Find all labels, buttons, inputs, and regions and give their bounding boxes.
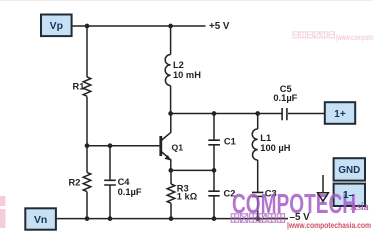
svg-text:10 mH: 10 mH — [173, 70, 201, 80]
junction dot C1-C2 node — [212, 168, 217, 173]
wire L2 column — [170, 26, 172, 114]
capacitor C5 plates — [282, 108, 287, 120]
junction dot bottom rail C3 — [255, 216, 260, 221]
wire R3 leads — [170, 170, 172, 218]
svg-text:C4: C4 — [118, 177, 131, 187]
arrow to -5V rail — [318, 175, 329, 201]
junction dot bottom rail C4 — [108, 216, 113, 221]
terminal box 1- — [334, 184, 365, 206]
svg-text:1 kΩ: 1 kΩ — [177, 192, 198, 202]
wire C5 to 1+ box — [288, 113, 325, 115]
junction dot C4 top node — [108, 143, 113, 148]
wire mid rail to C5 — [171, 113, 282, 115]
svg-text:1+: 1+ — [334, 109, 346, 120]
junction dot L2 top — [168, 24, 173, 29]
terminal box 1+ — [325, 102, 355, 124]
transistor Q1 — [161, 114, 171, 171]
wire C1 column — [213, 114, 215, 171]
wire bottom -5V rail — [56, 218, 288, 220]
svg-text:|www.compotechasia.com: |www.compotechasia.com — [287, 220, 371, 230]
junction dot emitter node — [168, 168, 173, 173]
faint watermark left edge — [0, 196, 6, 228]
svg-text:100 µH: 100 µH — [260, 143, 290, 153]
watermark CJK row — [231, 214, 284, 223]
svg-text:GND: GND — [338, 165, 360, 176]
junction dot Vp rail — [85, 24, 90, 29]
terminal box Vp — [41, 15, 72, 37]
wire left column (Vp to bottom rail) — [86, 26, 88, 219]
svg-text:Asia: Asia — [350, 201, 369, 213]
capacitor C4 plates — [104, 180, 116, 185]
faint watermark top right — [293, 32, 373, 42]
wire C2 column — [213, 170, 215, 218]
resistor R1 — [83, 77, 91, 96]
terminal box Vn — [25, 208, 56, 229]
svg-text:0.1µF: 0.1µF — [118, 187, 142, 197]
capacitor C2 plates — [208, 191, 219, 196]
junction dot collector node — [168, 111, 173, 116]
top edge artifact — [0, 0, 373, 2]
junction dot bottom rail C2 — [212, 216, 217, 221]
svg-text:1–: 1– — [343, 190, 355, 201]
inductor L1 — [252, 129, 257, 160]
wire emitter rail — [171, 169, 214, 171]
svg-text:L2: L2 — [173, 60, 184, 70]
svg-text:Q1: Q1 — [172, 142, 184, 152]
terminal box GND — [334, 158, 365, 180]
wire L1 column — [257, 114, 259, 219]
resistor R3 — [167, 184, 175, 203]
svg-text:Vp: Vp — [50, 21, 63, 32]
svg-text:Vn: Vn — [34, 215, 47, 226]
capacitor C1 plates — [208, 140, 220, 145]
resistor R2 — [83, 172, 91, 191]
svg-text:0.1µF: 0.1µF — [273, 93, 297, 103]
svg-text:R2: R2 — [69, 177, 81, 187]
inductor L2 — [165, 55, 170, 86]
svg-text:+5 V: +5 V — [209, 21, 230, 32]
svg-text:C1: C1 — [224, 137, 236, 147]
wire top +5V rail — [72, 25, 206, 27]
wire C4 column — [109, 146, 111, 219]
junction dot bottom rail R3 — [169, 216, 174, 221]
svg-text:R1: R1 — [73, 82, 85, 92]
wire base rail — [87, 145, 159, 147]
junction dot bottom rail R2 — [85, 216, 90, 221]
junction dot base node — [85, 143, 90, 148]
junction dot C1 top node — [212, 111, 217, 116]
svg-text:L1: L1 — [260, 133, 271, 143]
junction dot L1 top node — [255, 111, 260, 116]
capacitor C3 plates — [252, 192, 263, 196]
svg-text:|www.compote: |www.compote — [336, 33, 373, 42]
